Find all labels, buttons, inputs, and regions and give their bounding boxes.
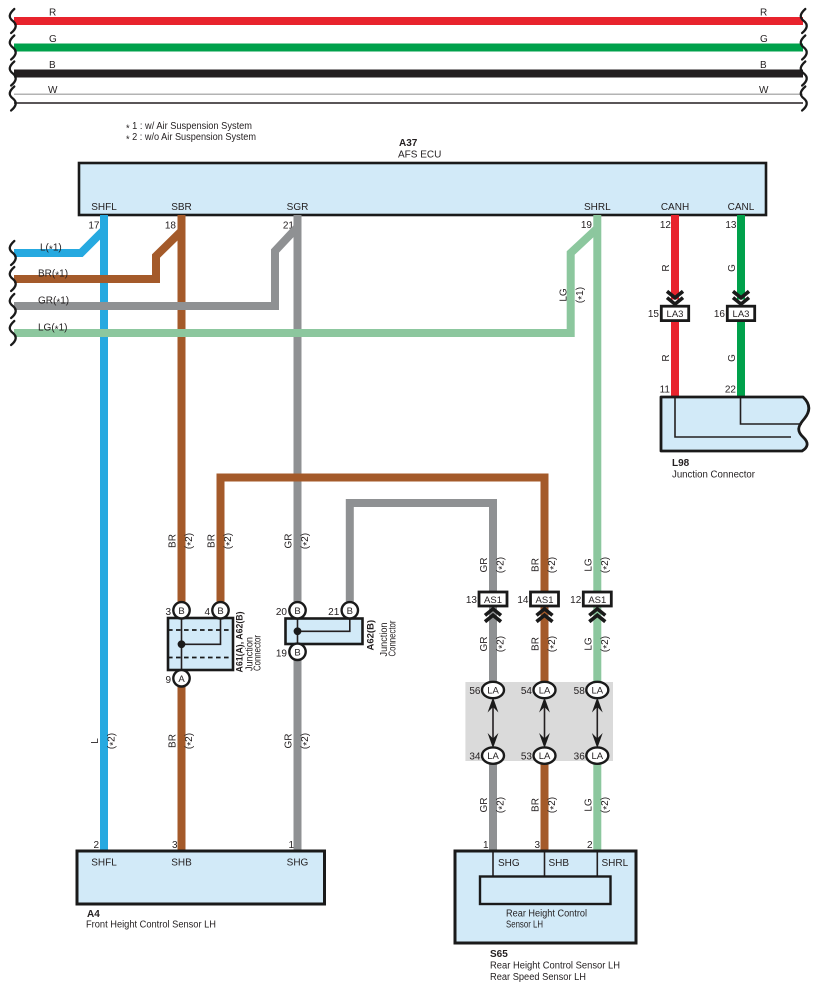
svg-text:B: B xyxy=(49,60,56,71)
chevron arrows into AS1 no.12 xyxy=(589,609,605,622)
wire BR vertical upper xyxy=(178,215,186,603)
svg-text:LA: LA xyxy=(539,686,551,697)
svg-text:(*2): (*2) xyxy=(496,557,509,573)
connector AS1 no.14 xyxy=(517,592,558,606)
svg-text:3: 3 xyxy=(165,607,171,618)
bus wire W xyxy=(14,85,803,103)
connector AS1 no.12 xyxy=(570,592,611,606)
svg-text:BR: BR xyxy=(531,798,542,812)
chevron arrows into LA3 no.15 xyxy=(667,291,683,304)
svg-text:(*2): (*2) xyxy=(184,733,197,749)
svg-text:54: 54 xyxy=(521,686,533,697)
left break squiggle bus W xyxy=(10,87,16,111)
svg-text:LG: LG xyxy=(583,798,594,812)
bus wire G xyxy=(14,34,803,52)
svg-text:GR: GR xyxy=(479,798,490,813)
svg-text:AS1: AS1 xyxy=(484,595,502,606)
svg-text:9: 9 xyxy=(165,675,171,686)
terminal LA pin 54 xyxy=(521,682,556,698)
terminal LA pin 36 xyxy=(574,747,609,763)
svg-text:CANH: CANH xyxy=(661,202,689,213)
svg-text:SHB: SHB xyxy=(549,858,570,869)
junction connector L98 xyxy=(661,397,809,451)
wire GR vertical lower xyxy=(294,660,302,853)
right break squiggle bus B xyxy=(801,62,807,86)
terminal B pin 20 xyxy=(276,602,306,618)
shield arrow 56-34 xyxy=(488,697,499,748)
right break squiggle bus W xyxy=(801,87,807,111)
svg-text:13: 13 xyxy=(466,595,478,606)
svg-text:17: 17 xyxy=(88,221,100,232)
terminal LA pin 34 xyxy=(469,747,504,763)
svg-text:LA3: LA3 xyxy=(667,309,684,320)
svg-text:B: B xyxy=(760,60,767,71)
svg-text:GR: GR xyxy=(479,637,490,652)
svg-text:13: 13 xyxy=(725,220,737,231)
svg-text:(*2): (*2) xyxy=(600,636,613,652)
connector LA3 no.15 xyxy=(661,306,688,320)
svg-text:B: B xyxy=(347,606,353,617)
svg-text:W: W xyxy=(759,85,769,96)
svg-text:(*2): (*2) xyxy=(184,533,197,549)
svg-text:Front Height Control Sensor LH: Front Height Control Sensor LH xyxy=(86,920,216,931)
svg-text:4: 4 xyxy=(204,607,210,618)
svg-text:SHFL: SHFL xyxy=(91,858,117,869)
svg-text:BR: BR xyxy=(207,534,218,548)
svg-text:R: R xyxy=(760,8,767,19)
svg-text:G: G xyxy=(49,34,57,45)
svg-text:LA3: LA3 xyxy=(733,309,750,320)
svg-text:18: 18 xyxy=(165,221,177,232)
svg-text:SHRL: SHRL xyxy=(584,202,611,213)
wire CANL G upper xyxy=(737,215,745,300)
wire CANH R lower xyxy=(671,319,679,399)
left break squiggle L xyxy=(10,241,16,265)
svg-text:B: B xyxy=(217,606,223,617)
svg-text:Rear Speed Sensor LH: Rear Speed Sensor LH xyxy=(490,972,586,983)
terminal B pin 19 xyxy=(276,644,306,660)
svg-text:19: 19 xyxy=(276,649,288,660)
svg-text:(*2): (*2) xyxy=(300,733,313,749)
svg-text:R: R xyxy=(661,354,672,361)
svg-text:L98: L98 xyxy=(672,458,690,469)
svg-text:SHG: SHG xyxy=(498,858,520,869)
left break squiggle LG xyxy=(10,321,16,345)
svg-text:53: 53 xyxy=(521,752,533,763)
svg-text:Sensor LH: Sensor LH xyxy=(506,920,543,931)
svg-text:12: 12 xyxy=(570,595,582,606)
svg-text:GR: GR xyxy=(284,534,295,549)
svg-text:AS1: AS1 xyxy=(588,595,606,606)
svg-text:A: A xyxy=(178,674,185,685)
svg-text:34: 34 xyxy=(469,752,481,763)
svg-text:20: 20 xyxy=(276,607,288,618)
svg-text:SGR: SGR xyxy=(287,202,309,213)
connector LA3 no.16 xyxy=(727,306,754,320)
wire BR vertical lower xyxy=(178,687,186,853)
svg-text:BR: BR xyxy=(531,558,542,572)
svg-text:A4: A4 xyxy=(87,909,100,920)
svg-text:A62(B): A62(B) xyxy=(366,620,377,651)
terminal B pin 4 xyxy=(204,602,228,618)
svg-text:BR: BR xyxy=(168,534,179,548)
connector AS1 no.13 xyxy=(466,592,507,606)
svg-text:(*2): (*2) xyxy=(547,797,560,813)
svg-text:LA: LA xyxy=(539,751,551,762)
svg-text:2: 2 xyxy=(587,840,593,851)
svg-text:SHFL: SHFL xyxy=(91,202,117,213)
wire BR2 branch over to AS1 xyxy=(221,478,545,684)
svg-text:CANL: CANL xyxy=(728,202,755,213)
terminal LA pin 58 xyxy=(574,682,609,698)
svg-text:LG: LG xyxy=(559,288,570,302)
terminal A pin 9 xyxy=(165,670,189,686)
svg-text:22: 22 xyxy=(725,385,737,396)
svg-text:Junction Connector: Junction Connector xyxy=(672,470,756,481)
svg-text:A37: A37 xyxy=(399,138,418,149)
svg-text:(*2): (*2) xyxy=(496,636,509,652)
svg-text:GR: GR xyxy=(284,734,295,749)
svg-text:BR: BR xyxy=(168,734,179,748)
wire L vertical xyxy=(100,215,108,852)
junction connector A61(A) A62(B) xyxy=(168,618,233,670)
svg-text:56: 56 xyxy=(469,686,481,697)
chevron arrows into LA3 no.16 xyxy=(733,291,749,304)
svg-text:GR: GR xyxy=(479,558,490,573)
svg-text:3: 3 xyxy=(172,840,178,851)
svg-text:SHG: SHG xyxy=(287,858,309,869)
svg-text:B: B xyxy=(294,606,300,617)
svg-text:G: G xyxy=(727,354,738,362)
wire GR vertical upper xyxy=(294,215,302,603)
svg-text:Rear Height Control Sensor LH: Rear Height Control Sensor LH xyxy=(490,961,620,972)
svg-text:36: 36 xyxy=(574,752,586,763)
left break squiggle BR xyxy=(10,267,16,291)
shield shaded area xyxy=(465,682,613,761)
svg-text:LA: LA xyxy=(591,686,603,697)
svg-text:2: 2 xyxy=(93,840,99,851)
svg-text:LA: LA xyxy=(591,751,603,762)
svg-text:(*2): (*2) xyxy=(547,557,560,573)
wire LG vertical upper xyxy=(593,215,601,683)
svg-text:R: R xyxy=(661,264,672,271)
svg-text:G: G xyxy=(760,34,768,45)
svg-text:SHB: SHB xyxy=(171,858,192,869)
svg-text:(*2): (*2) xyxy=(107,733,120,749)
ECU A37 xyxy=(79,163,766,215)
chevron arrows into AS1 no.14 xyxy=(537,609,553,622)
sensor S65 xyxy=(455,851,636,943)
wire CANH R upper xyxy=(671,215,679,300)
svg-text:* 2 : w/o Air Suspension Syste: * 2 : w/o Air Suspension System xyxy=(126,132,256,146)
wire LG entry branch xyxy=(14,229,597,334)
svg-text:(*2): (*2) xyxy=(300,533,313,549)
svg-text:LA: LA xyxy=(487,686,499,697)
svg-text:(*2): (*2) xyxy=(600,557,613,573)
junction connector A62(B) xyxy=(286,619,363,645)
right break squiggle bus G xyxy=(801,36,807,60)
svg-text:12: 12 xyxy=(660,220,672,231)
shield arrow 54-53 xyxy=(539,697,550,748)
left break squiggle bus B xyxy=(10,62,16,86)
wire CANL G lower xyxy=(737,319,745,399)
wire L entry from left xyxy=(14,230,104,253)
terminal B pin 3 xyxy=(165,602,189,618)
svg-text:AS1: AS1 xyxy=(536,595,554,606)
svg-text:S65: S65 xyxy=(490,949,508,960)
svg-text:LG: LG xyxy=(583,637,594,651)
svg-text:Connector: Connector xyxy=(387,620,398,657)
svg-text:(*2): (*2) xyxy=(223,533,236,549)
chevron arrows into AS1 no.13 xyxy=(485,609,501,622)
svg-text:(*2): (*2) xyxy=(547,636,560,652)
svg-text:LG: LG xyxy=(583,558,594,572)
svg-text:L: L xyxy=(90,738,101,744)
svg-text:15: 15 xyxy=(648,309,660,320)
svg-text:(*2): (*2) xyxy=(600,797,613,813)
terminal LA pin 53 xyxy=(521,747,556,763)
svg-text:14: 14 xyxy=(517,595,529,606)
terminal LA pin 56 xyxy=(469,682,504,698)
svg-text:R: R xyxy=(49,8,56,19)
left break squiggle GR xyxy=(10,294,16,318)
svg-text:BR: BR xyxy=(531,637,542,651)
svg-text:16: 16 xyxy=(714,309,726,320)
wire BR entry from left xyxy=(14,231,182,279)
bus wire B xyxy=(14,60,803,78)
svg-text:G: G xyxy=(727,264,738,272)
wire GR2 branch over to AS1 xyxy=(350,503,493,683)
shield arrow 58-36 xyxy=(592,697,603,748)
svg-text:Rear Height Control: Rear Height Control xyxy=(506,909,587,920)
svg-text:B: B xyxy=(294,647,300,658)
svg-text:1: 1 xyxy=(288,840,294,851)
svg-text:3: 3 xyxy=(534,840,540,851)
svg-text:Connector: Connector xyxy=(253,634,264,671)
svg-text:SBR: SBR xyxy=(171,202,192,213)
sensor A4 xyxy=(77,851,325,904)
svg-text:B: B xyxy=(178,606,184,617)
svg-text:AFS ECU: AFS ECU xyxy=(398,150,441,161)
wire LG vertical lower xyxy=(593,763,601,852)
svg-text:21: 21 xyxy=(328,607,340,618)
wire GR entry from left xyxy=(14,227,298,306)
svg-text:LA: LA xyxy=(487,751,499,762)
left break squiggle bus R xyxy=(10,9,16,33)
svg-text:58: 58 xyxy=(574,686,586,697)
right break squiggle bus R xyxy=(801,9,807,33)
svg-text:(*1): (*1) xyxy=(575,287,588,303)
left break squiggle bus G xyxy=(10,36,16,60)
wire BR2 lower to S65 xyxy=(541,763,549,852)
svg-text:1: 1 xyxy=(483,840,489,851)
svg-text:W: W xyxy=(48,85,58,96)
terminal B pin 21 xyxy=(328,602,358,618)
bus wire R xyxy=(14,8,803,26)
wire GR2 lower to S65 xyxy=(489,763,497,852)
svg-text:11: 11 xyxy=(660,385,671,396)
svg-text:SHRL: SHRL xyxy=(602,858,629,869)
svg-text:(*2): (*2) xyxy=(496,797,509,813)
